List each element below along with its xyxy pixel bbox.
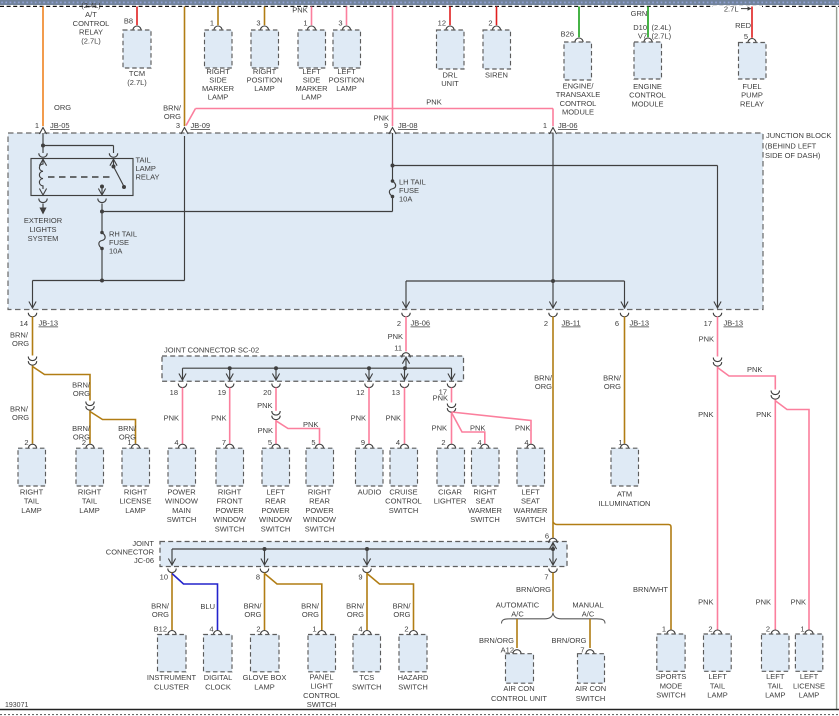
svg-text:PNK: PNK [433, 394, 448, 403]
svg-text:SWITCH: SWITCH [516, 515, 546, 524]
svg-text:CIGAR: CIGAR [438, 487, 462, 496]
svg-text:BRN/ORG: BRN/ORG [516, 585, 551, 594]
component CIGAR LIGHTER pin 2 [447, 444, 455, 449]
svg-text:17: 17 [704, 319, 712, 328]
svg-text:2: 2 [544, 319, 548, 328]
svg-text:LAMP: LAMP [707, 691, 727, 700]
wire PNK SC-02 19 to right front power window switch [229, 388, 231, 444]
svg-text:1: 1 [303, 19, 307, 28]
svg-text:BLU: BLU [200, 602, 215, 611]
wire PNK branch to right seat warmer switch [452, 413, 485, 444]
wire RED to DRL unit [449, 7, 451, 26]
component LEFT TAIL LAMP pin 2 (second) [771, 630, 779, 635]
svg-text:CLOCK: CLOCK [205, 682, 231, 691]
connector JB-09 pin 3 [181, 128, 188, 135]
svg-text:SWITCH: SWITCH [167, 515, 197, 524]
svg-text:PNK: PNK [747, 365, 762, 374]
svg-text:TAIL: TAIL [82, 497, 97, 506]
svg-text:2: 2 [24, 438, 28, 447]
svg-text:JB-06: JB-06 [411, 319, 431, 328]
wire PNK to cigar lighter [451, 413, 453, 444]
svg-text:(2.7L): (2.7L) [81, 36, 101, 45]
svg-text:SIREN: SIREN [485, 70, 508, 79]
svg-text:2: 2 [82, 438, 86, 447]
svg-text:(2.7L): (2.7L) [127, 78, 147, 87]
JC-06 pin 9 [363, 569, 371, 573]
svg-text:1: 1 [543, 121, 547, 130]
svg-text:LEFT: LEFT [766, 672, 785, 681]
svg-text:B26: B26 [561, 29, 574, 38]
svg-text:2.7L: 2.7L [724, 4, 739, 13]
svg-text:JB-11: JB-11 [562, 319, 581, 328]
svg-text:ORG: ORG [244, 610, 261, 619]
component HAZARD SWITCH pin 2 [409, 631, 417, 636]
svg-text:CONTROL: CONTROL [629, 91, 666, 100]
svg-text:PNK: PNK [303, 420, 318, 429]
svg-text:AUDIO: AUDIO [358, 487, 382, 496]
svg-text:CRUISE: CRUISE [389, 487, 417, 496]
svg-text:2: 2 [256, 624, 260, 633]
svg-text:2: 2 [708, 625, 712, 634]
svg-text:GLOVE BOX: GLOVE BOX [243, 673, 287, 682]
svg-text:PNK: PNK [432, 424, 447, 433]
splice connector 2 [86, 402, 94, 406]
wire relay output to LH fuse bottom [102, 211, 393, 213]
svg-text:BRN/ORG: BRN/ORG [551, 636, 586, 645]
svg-text:JB-05: JB-05 [50, 121, 70, 130]
svg-text:FRONT: FRONT [217, 497, 243, 506]
wire JB-08 to LH fuse [392, 133, 394, 181]
component RIGHT REAR POWER WINDOW SWITCH pin 5 [315, 444, 323, 449]
wire relay output node [101, 204, 103, 233]
svg-text:PNK: PNK [351, 414, 366, 423]
wire BRN/ORG JC-06 7 to A/C brace [552, 573, 554, 612]
white backing for 2.7L label [713, 6, 762, 13]
svg-text:JB-09: JB-09 [191, 121, 211, 130]
svg-text:1: 1 [210, 19, 214, 28]
wire JB-05 to tail lamp relay [42, 133, 44, 153]
svg-text:RIGHT: RIGHT [218, 487, 242, 496]
svg-text:CONTROL: CONTROL [73, 19, 110, 28]
connector JB-13 pin 6 [620, 313, 628, 317]
svg-text:ORG: ORG [604, 382, 621, 391]
svg-text:LEFT: LEFT [521, 487, 540, 496]
svg-text:FUEL: FUEL [742, 82, 761, 91]
splice connector [28, 357, 36, 361]
svg-text:CLUSTER: CLUSTER [154, 682, 190, 691]
relay coil [39, 159, 46, 166]
junction block (behind left side of dash) [8, 133, 763, 310]
svg-text:LAMP: LAMP [79, 506, 99, 515]
JC-06 pin 6 entry [549, 538, 557, 543]
component GLOVE BOX LAMP pin 2 [260, 631, 268, 636]
svg-text:PNK: PNK [515, 424, 530, 433]
svg-text:PNK: PNK [470, 424, 485, 433]
wire PNK SC-02 18 to power window main switch [182, 388, 184, 444]
component PANEL LIGHT CONTROL SWITCH pin 1 [318, 631, 326, 636]
svg-text:4: 4 [209, 624, 213, 633]
svg-text:10: 10 [160, 573, 168, 582]
svg-text:JOINT CONNECTOR SC-02: JOINT CONNECTOR SC-02 [164, 346, 259, 355]
brace split automatic/manual [502, 613, 606, 624]
svg-text:ENGINE/: ENGINE/ [563, 82, 595, 91]
wire PNK branch to left seat warmer switch [452, 412, 532, 444]
wire PNK branch right [718, 368, 776, 390]
svg-text:RIGHT: RIGHT [78, 487, 102, 496]
svg-text:REAR: REAR [265, 497, 286, 506]
svg-text:CONTROL: CONTROL [303, 691, 340, 700]
svg-text:10A: 10A [399, 195, 412, 204]
wire BRN/ORG JB-11 pin 2 down to JC-06 pin 6 [552, 317, 554, 538]
svg-text:ORG: ORG [164, 112, 181, 121]
svg-text:ORG: ORG [347, 610, 364, 619]
svg-text:4: 4 [174, 438, 178, 447]
svg-text:JB-13: JB-13 [39, 319, 59, 328]
svg-text:14: 14 [20, 319, 28, 328]
svg-text:LAMP: LAMP [336, 84, 356, 93]
svg-text:(2.7L): (2.7L) [652, 31, 672, 40]
wire BRN/WHT branch to sports mode switch [553, 522, 671, 630]
wire block bus to JB-06 pin 2 and JB-13 pin 6 [406, 280, 625, 282]
svg-text:WINDOW: WINDOW [213, 515, 247, 524]
svg-text:2: 2 [766, 625, 770, 634]
component TCS SWITCH pin 4 [363, 631, 371, 636]
svg-text:18: 18 [170, 388, 178, 397]
svg-text:PNK: PNK [388, 332, 403, 341]
svg-text:SWITCH: SWITCH [398, 682, 428, 691]
wire GRN to engine/transaxle control module [578, 7, 580, 38]
svg-text:JUNCTION BLOCK: JUNCTION BLOCK [766, 131, 831, 140]
svg-text:SWITCH: SWITCH [656, 691, 686, 700]
svg-text:RED: RED [735, 21, 751, 30]
svg-text:LAMP: LAMP [765, 691, 785, 700]
svg-text:RIGHT: RIGHT [124, 487, 148, 496]
svg-text:1: 1 [662, 625, 666, 634]
component CRUISE CONTROL SWITCH pin 4 [400, 444, 408, 449]
wire BLU branch to digital clock [172, 574, 218, 631]
fuse RH TAIL FUSE 10A [100, 231, 104, 235]
wire BRN/ORG feed to JB-09 [184, 7, 186, 127]
svg-text:12: 12 [438, 19, 446, 28]
svg-text:WINDOW: WINDOW [165, 497, 199, 506]
svg-text:19: 19 [218, 388, 226, 397]
svg-text:AIR CON: AIR CON [503, 684, 534, 693]
svg-text:AUTOMATIC: AUTOMATIC [496, 601, 540, 610]
wire PNK SC-02 17 splice [451, 388, 453, 403]
svg-text:POWER: POWER [305, 506, 334, 515]
svg-text:JB-08: JB-08 [398, 121, 418, 130]
svg-text:193071: 193071 [5, 702, 28, 709]
svg-text:ILLUMINATION: ILLUMINATION [599, 499, 651, 508]
svg-text:LEFT: LEFT [266, 487, 285, 496]
wire BRN/ORG to right tail lamp 2 [89, 411, 91, 444]
svg-text:JC-06: JC-06 [134, 556, 154, 565]
svg-text:PNK: PNK [211, 414, 226, 423]
svg-text:TAIL: TAIL [24, 497, 39, 506]
svg-text:LAMP: LAMP [799, 691, 819, 700]
connector JB-05 pin 1 [39, 128, 46, 135]
svg-text:9: 9 [361, 438, 365, 447]
wire GRN to engine control module [647, 7, 649, 38]
svg-text:2: 2 [488, 19, 492, 28]
svg-text:SEAT: SEAT [475, 497, 494, 506]
wire PNK branch to right rear power window switch [276, 421, 320, 444]
splice connector pink 2 [771, 391, 779, 395]
svg-text:LAMP: LAMP [21, 506, 41, 515]
component AIR CON SWITCH pin 7 [586, 650, 594, 655]
wire BRN/ORG branch [33, 367, 91, 401]
svg-text:AIR CON: AIR CON [575, 684, 606, 693]
svg-text:8: 8 [256, 573, 260, 582]
connector JB-08 pin 9 [389, 128, 396, 135]
wire BRN/ORG to right tail lamp 1 [32, 366, 34, 444]
connector JB-13 pin 14 [28, 313, 36, 317]
svg-text:PUMP: PUMP [741, 91, 763, 100]
relay contact arm [113, 159, 115, 167]
wire RH fuse to JB-13 pin 14 and JB-09 [101, 249, 103, 281]
component RIGHT SEAT WARMER SWITCH pin 4 [481, 444, 489, 449]
svg-text:RIGHT: RIGHT [20, 487, 44, 496]
wire JB-06 through block to JB-11 [552, 133, 554, 309]
svg-text:1: 1 [800, 625, 804, 634]
SC-02 internal bus [183, 367, 452, 369]
component DIGITAL CLOCK pin 4 [213, 631, 221, 636]
svg-text:12: 12 [356, 388, 364, 397]
svg-text:SYSTEM: SYSTEM [28, 234, 59, 243]
svg-text:BRN/WHT: BRN/WHT [633, 585, 668, 594]
SC-02 pin 17 [447, 384, 455, 388]
svg-text:INSTRUMENT: INSTRUMENT [147, 673, 197, 682]
svg-text:2: 2 [397, 319, 401, 328]
svg-text:CONTROL: CONTROL [560, 99, 597, 108]
svg-text:SWITCH: SWITCH [307, 700, 337, 709]
svg-text:PNK: PNK [756, 410, 771, 419]
svg-text:PNK: PNK [386, 414, 401, 423]
svg-text:LEFT: LEFT [800, 672, 819, 681]
svg-text:LICENSE: LICENSE [119, 497, 151, 506]
svg-text:PNK: PNK [164, 414, 179, 423]
svg-text:SPORTS: SPORTS [656, 672, 687, 681]
svg-text:ORG: ORG [302, 610, 319, 619]
wire PNK feed and bus to JB-08 JB-09 JB-06 [392, 7, 394, 127]
connector JB-13 pin 17 [713, 313, 721, 317]
svg-text:POWER: POWER [261, 506, 290, 515]
relay output pin [101, 187, 103, 196]
svg-text:PNK: PNK [699, 335, 714, 344]
svg-text:1: 1 [312, 624, 316, 633]
component LEFT REAR POWER WINDOW SWITCH pin 5 [272, 444, 280, 449]
svg-text:SWITCH: SWITCH [576, 694, 606, 703]
wire PNK to left position lamp [346, 7, 348, 26]
svg-text:3: 3 [338, 19, 342, 28]
svg-text:SWITCH: SWITCH [261, 525, 291, 534]
arrow to exterior lights system [42, 204, 44, 208]
svg-text:SWITCH: SWITCH [389, 506, 419, 515]
wire BRN to right position lamp [264, 7, 266, 26]
wire BRN to right side marker lamp [217, 7, 219, 26]
wire BRN/ORG to air con switch [589, 619, 591, 648]
wire PNK to left side marker lamp [311, 7, 313, 26]
svg-text:ORG: ORG [54, 103, 71, 112]
svg-text:7: 7 [222, 438, 226, 447]
wire PNK JB-06 pin 2 to SC-02 pin 11 [405, 317, 407, 352]
svg-text:1: 1 [35, 121, 39, 130]
svg-text:JB-13: JB-13 [630, 319, 650, 328]
fuse LH TAIL FUSE 10A [391, 179, 395, 183]
svg-text:UNIT: UNIT [441, 79, 459, 88]
relay linkage dashed [48, 176, 110, 178]
svg-text:LAMP: LAMP [254, 84, 274, 93]
svg-text:9: 9 [384, 121, 388, 130]
svg-text:(BEHIND LEFT: (BEHIND LEFT [765, 142, 817, 151]
wire RED to siren [496, 7, 498, 26]
svg-text:TAIL: TAIL [768, 681, 783, 690]
SC-02 pin 20 [272, 384, 280, 388]
svg-text:GRN: GRN [631, 9, 648, 18]
svg-text:JB-06: JB-06 [558, 121, 578, 130]
svg-text:ORG: ORG [393, 610, 410, 619]
svg-text:1: 1 [127, 438, 131, 447]
JC-06 internal bus [172, 548, 553, 550]
wire RED 2.7L to fuel pump relay [751, 7, 753, 38]
svg-text:3: 3 [176, 121, 180, 130]
wire RED to TCM [136, 7, 138, 26]
svg-text:EXTERIOR: EXTERIOR [24, 216, 63, 225]
svg-text:PNK: PNK [426, 98, 441, 107]
svg-text:TCS: TCS [359, 673, 374, 682]
svg-text:TAIL: TAIL [710, 681, 725, 690]
svg-text:2: 2 [404, 624, 408, 633]
svg-text:A/T: A/T [85, 10, 97, 19]
component POWER WINDOW MAIN SWITCH pin 4 [178, 444, 186, 449]
wire BRN/ORG from JB-13 pin 14 [32, 317, 34, 356]
svg-text:ENGINE: ENGINE [633, 82, 662, 91]
svg-text:SIDE OF DASH): SIDE OF DASH) [765, 151, 821, 160]
svg-text:ATM: ATM [617, 490, 632, 499]
node pink bus / JB-08 wire [391, 107, 393, 109]
connector JB-06 pin 2 [402, 313, 410, 317]
wire PNK branch to left license lamp [775, 401, 809, 630]
svg-text:SEAT: SEAT [521, 497, 540, 506]
svg-text:SWITCH: SWITCH [215, 525, 245, 534]
svg-text:REAR: REAR [309, 497, 330, 506]
wire BRN/ORG branch to panel light control switch [265, 574, 322, 631]
svg-text:PNK: PNK [791, 598, 806, 607]
SC-02 pin 13 [400, 384, 408, 388]
svg-text:20: 20 [263, 388, 271, 397]
svg-text:LICENSE: LICENSE [793, 681, 825, 690]
component ATM ILLUMINATION pin 1 [620, 444, 628, 449]
wire BRN/ORG to air con control unit [516, 619, 518, 648]
svg-text:LAMP: LAMP [254, 682, 274, 691]
wire BRN/ORG branch to hazard switch [367, 574, 414, 631]
component AIR CON CONTROL UNIT pin A12 [513, 650, 521, 655]
svg-text:MODULE: MODULE [562, 108, 594, 117]
svg-text:PNK: PNK [292, 6, 307, 15]
wire ORG feed to JB-05 [42, 7, 44, 127]
JC-06 pin 7 [549, 569, 557, 573]
svg-text:RELAY: RELAY [79, 28, 103, 37]
svg-text:PNK: PNK [257, 401, 272, 410]
svg-text:LAMP: LAMP [208, 93, 228, 102]
svg-text:TRANSAXLE: TRANSAXLE [556, 90, 601, 99]
bottom dashed edge [0, 714, 839, 716]
wire PNK to left tail lamp 2 [774, 400, 776, 630]
svg-text:6: 6 [545, 532, 549, 541]
svg-text:RELAY: RELAY [740, 99, 764, 108]
wire LH fuse bottom [392, 197, 394, 212]
svg-text:DIGITAL: DIGITAL [204, 673, 233, 682]
svg-text:HAZARD: HAZARD [398, 673, 429, 682]
svg-text:A/C: A/C [582, 610, 595, 619]
svg-text:PNK: PNK [698, 410, 713, 419]
svg-text:10A: 10A [109, 247, 122, 256]
svg-text:LEFT: LEFT [708, 672, 727, 681]
svg-text:ORG: ORG [535, 382, 552, 391]
svg-text:MODE: MODE [660, 681, 683, 690]
svg-text:MANUAL: MANUAL [572, 601, 603, 610]
component AUDIO pin 9 [365, 444, 373, 449]
svg-text:5: 5 [268, 438, 272, 447]
svg-text:CONTROL: CONTROL [385, 497, 422, 506]
wire BRN/ORG JB-13 pin 6 to ATM illumination [624, 317, 626, 444]
svg-text:RELAY: RELAY [136, 173, 160, 182]
svg-text:4: 4 [358, 624, 362, 633]
component LEFT TAIL LAMP pin 2 (first) [713, 630, 721, 635]
SC-02 pin 12 [365, 384, 373, 388]
svg-text:2: 2 [441, 438, 445, 447]
svg-text:PNK: PNK [258, 426, 273, 435]
svg-text:ORG: ORG [152, 610, 169, 619]
component RIGHT FRONT POWER WINDOW SWITCH pin 7 [226, 444, 234, 449]
top dashed border [0, 5, 839, 7]
svg-text:JB-13: JB-13 [724, 319, 744, 328]
wire BRN/ORG to right license lamp [90, 412, 136, 444]
svg-text:PANEL: PANEL [309, 673, 333, 682]
JC-06 pin 8 [260, 569, 268, 573]
svg-text:POWER: POWER [215, 506, 244, 515]
svg-text:PNK: PNK [756, 598, 771, 607]
svg-text:WARMER: WARMER [514, 506, 548, 515]
wire PNK to left tail lamp 1 [717, 367, 719, 630]
svg-text:LIGHTS: LIGHTS [29, 225, 56, 234]
svg-text:ORG: ORG [73, 389, 90, 398]
wire PNK SC-02 12 to audio [368, 388, 370, 444]
svg-text:BRN/ORG: BRN/ORG [479, 636, 514, 645]
component LEFT SEAT WARMER SWITCH pin 4 [527, 444, 535, 449]
splice connector pink 1 [713, 358, 721, 362]
svg-text:A/C: A/C [511, 610, 524, 619]
wire BRN/ORG JC-06 10 to instrument cluster [171, 573, 173, 631]
svg-text:MAIN: MAIN [172, 506, 191, 515]
svg-text:SWITCH: SWITCH [470, 515, 500, 524]
svg-text:11: 11 [394, 344, 402, 353]
wire PNK to left rear power window switch [275, 420, 277, 444]
connector JB-11 pin 2 [549, 313, 557, 317]
svg-text:B12: B12 [154, 624, 167, 633]
svg-text:ORG: ORG [12, 339, 29, 348]
component INSTRUMENT CLUSTER pin B12 [168, 631, 176, 636]
svg-text:6: 6 [615, 319, 619, 328]
component LEFT LICENSE LAMP pin 1 [805, 630, 813, 635]
svg-text:LAMP: LAMP [301, 93, 321, 102]
wire BRN/ORG JC-06 9 to TCS switch [366, 573, 368, 631]
svg-text:5: 5 [311, 438, 315, 447]
SC-02 pin 19 [226, 384, 234, 388]
svg-text:WINDOW: WINDOW [259, 515, 293, 524]
svg-text:DRL: DRL [442, 70, 457, 79]
right window edge [836, 7, 838, 710]
